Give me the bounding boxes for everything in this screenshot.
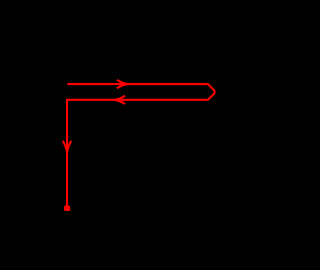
arrowhead left (bottom run) (114, 96, 125, 104)
arrowhead down (vertical run) (63, 141, 71, 152)
endpoint dot (64, 206, 70, 212)
arrowhead right (top run) (117, 80, 128, 88)
wire: red trajectory path (top run, beveled U-turn, bottom run, vertical drop) (67, 84, 214, 207)
